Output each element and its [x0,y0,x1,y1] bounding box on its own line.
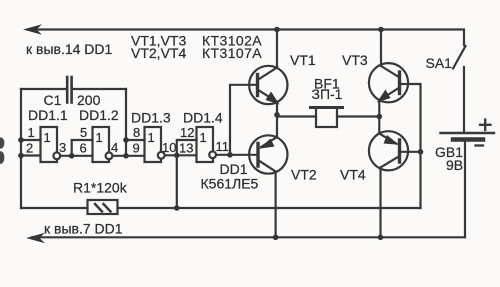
wire output pin 11 of DD1.4 to bases of VT1,VT2 [216,154,230,156]
node junction output 3 [69,153,75,159]
wire drop from gates node to R1 line [176,155,178,208]
svg-text:DD1.2: DD1.2 [79,107,119,123]
label VT1,VT3 КТ3102А [131,33,262,49]
svg-text:DD1.4: DD1.4 [183,110,223,126]
scan artifact marks at left edge [0,137,4,163]
svg-text:9: 9 [133,141,140,156]
label gate symbol 1 [44,130,51,145]
svg-text:2: 2 [26,141,33,156]
svg-text:DD1.3: DD1.3 [131,110,171,126]
pin number 13 [179,141,193,156]
wire output pin 3 of DD1.1 to inputs of DD1.2 [60,140,92,156]
node junction pin2 [18,153,24,159]
svg-text:VT3: VT3 [342,52,368,68]
wire top rail (positive supply, к выв.14 DD1) [29,30,464,46]
svg-text:12: 12 [180,125,194,140]
label SA1 [426,55,453,71]
label К561ЛЕ5 [201,176,259,192]
label gate symbol 1 [96,130,103,145]
label gate symbol 1 [200,130,207,145]
svg-text:1: 1 [44,130,51,145]
pin number 11 [216,139,230,154]
node junction VT3/VT4 emitters [377,114,383,120]
transistor VT1 [249,30,287,115]
svg-text:4: 4 [111,140,118,155]
node junction VT1/VT2 emitters [274,112,280,118]
label ЗП-1 [312,86,343,102]
node arrow to pin 7 DD1 [26,233,45,244]
svg-text:1: 1 [96,130,103,145]
label VT3 [342,52,368,68]
label 9В [446,157,463,173]
node junction pin1 [18,137,24,143]
label VT2,VT4 КТ3107А [131,45,262,61]
wire bottom rail (negative supply, к выв.7 DD1) [32,236,465,238]
node junction VT4 base [418,149,424,155]
svg-text:3: 3 [59,140,66,155]
resistor R1 [21,200,421,214]
svg-text:к выв.14 DD1: к выв.14 DD1 [26,41,113,57]
transistor VT4 emitter arrow [384,135,400,145]
node junction pin 8 tap [123,137,129,143]
pin number 2 [26,141,33,156]
svg-text:C1: C1 [44,92,62,108]
svg-text:13: 13 [179,141,193,156]
svg-text:1: 1 [148,130,155,145]
svg-text:8: 8 [133,125,140,140]
wire base riser VT3/VT4 [400,84,421,208]
label VT4 [340,167,366,183]
svg-text:VT4: VT4 [340,167,366,183]
wire feedback riser from DD1.2 output to C1 frame [125,89,127,156]
node junction VT3 collector on top rail [378,27,384,33]
switch SA1 [453,46,466,133]
label DD1.3 [131,110,171,126]
node arrow to pin 14 DD1 [23,24,42,35]
wire left vertical bus [20,89,22,208]
node junction VT1 collector on top rail [274,27,280,33]
pin number 6 [80,141,87,156]
label DD1 [220,161,248,177]
label + [480,120,491,131]
svg-text:5: 5 [80,125,87,140]
node junction base bus left [227,152,233,158]
wire output pin 10 of DD1.3 to inputs of DD1.4 [165,140,197,155]
gate DD1.2 [93,127,113,162]
capacitor C1 [21,77,126,103]
svg-text:1: 1 [200,130,207,145]
svg-text:VT2,VT4: VT2,VT4 [131,45,186,61]
label DD1.4 [183,110,223,126]
svg-text:к выв.7 DD1: к выв.7 DD1 [44,221,123,237]
gate DD1.3 [145,127,165,162]
transistor VT3 [369,30,408,117]
transistor VT3 emitter arrow [377,90,391,103]
wire input pins 1,2 of DD1.1 [21,140,41,156]
gate DD1.4 [197,127,217,162]
wire output pin 4 of DD1.2 to inputs of DD1.3 [113,140,145,156]
pin number 4 [111,140,118,155]
svg-text:11: 11 [216,139,230,154]
node junction VT2 collector on bottom rail [273,235,279,241]
pin number 8 [133,125,140,140]
battery GB1 [441,133,495,237]
label 200 [77,92,101,108]
svg-text:VT1: VT1 [290,52,316,68]
label VT1 [290,52,316,68]
svg-text:SA1: SA1 [426,55,453,71]
svg-text:DD1.1: DD1.1 [28,107,68,123]
svg-text:1: 1 [28,125,35,140]
svg-text:ЗП-1: ЗП-1 [312,86,343,102]
label BF1 [314,76,340,92]
pin number 1 [28,125,35,140]
node junction output 10 [174,153,180,159]
label DD1.2 [79,107,119,123]
svg-text:9В: 9В [446,157,463,173]
label к выв.7 DD1 [44,221,123,237]
pin number 10 [162,140,176,155]
label к выв.14 DD1 [26,41,113,57]
svg-text:КТ3107А: КТ3107А [202,45,262,61]
transistor VT4 [369,117,408,238]
transistor VT2 [249,115,287,238]
wire base riser VT1/VT2 [230,85,258,155]
label gate symbol 1 [148,130,155,145]
node junction VT4 collector on bottom rail [378,235,384,241]
label - [476,144,484,146]
transistor VT1 emitter arrow [266,92,280,105]
svg-text:6: 6 [80,141,87,156]
pin number 5 [80,125,87,140]
buzzer BF1 [277,108,379,128]
svg-text:VT2: VT2 [291,167,317,183]
node junction output 4 [123,153,129,159]
pin number 12 [180,125,194,140]
label C1 [44,92,62,108]
svg-text:R1*120k: R1*120k [73,180,128,196]
pin number 9 [133,141,140,156]
label R1*120k [73,180,128,196]
transistor VT2 emitter arrow [259,139,275,149]
label GB1 [435,144,463,160]
label DD1.1 [28,107,68,123]
label VT2 [291,167,317,183]
node junction R1 line with gates drop [174,205,180,211]
pin number 3 [59,140,66,155]
svg-text:10: 10 [162,140,176,155]
gate DD1.1 [41,127,61,162]
svg-text:200: 200 [77,92,101,108]
svg-text:К561ЛЕ5: К561ЛЕ5 [201,176,259,192]
